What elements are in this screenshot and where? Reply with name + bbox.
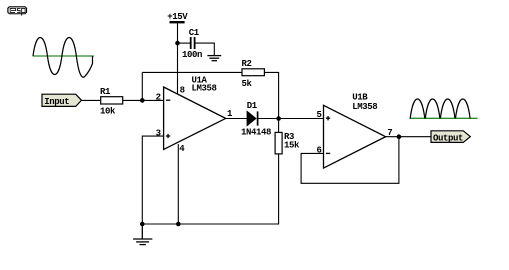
svg-text:1N4148: 1N4148 [241,128,271,138]
wire feedback vertical (pin2 node up) [141,72,143,100]
svg-text:R2: R2 [242,59,252,69]
wire R1 to op-amp pin 2 [123,99,164,101]
input port tag [42,94,82,107]
wire U1A output to D1 [226,118,247,120]
wire feedback top rail to R2 [142,71,242,73]
svg-text:D1: D1 [247,101,258,111]
svg-text:15k: 15k [284,141,300,151]
wire pin 6 feedback loop [301,137,399,184]
junction node pin2 [140,98,145,103]
svg-text:+15V: +15V [167,12,188,22]
svg-text:R1: R1 [100,87,111,97]
output waveform humps [410,99,470,118]
svg-text:Output: Output [433,133,463,143]
wire D1 to node [258,118,278,120]
diode D1 [247,111,258,125]
wire pin 4 down [177,144,179,224]
junction node ground rail left [140,222,145,227]
wire input tag to R1 [82,99,101,101]
+15V supply bar [170,21,185,23]
op-amp U1A [164,87,226,150]
junction node C1 [175,41,180,46]
op-amp U1B [324,105,386,168]
junction node D1/R2/R3/pin5 [276,116,281,121]
junction node pin4/rail [176,222,181,227]
svg-text:4: 4 [179,144,185,154]
wire U1B output [386,136,431,138]
junction node output [397,134,402,139]
svg-text:Input: Input [44,97,69,107]
svg-text:5k: 5k [242,79,253,89]
wire pin 3 to ground net [142,136,163,224]
wire node to C1 [178,42,191,44]
output port tag [431,131,470,144]
esp logo [7,6,27,16]
svg-text:10k: 10k [100,107,116,117]
wire R2 to node [264,72,278,118]
wire node down to R3 [278,119,280,133]
svg-text:1: 1 [227,109,233,119]
svg-text:5: 5 [317,110,322,120]
ground (C1) [207,56,221,61]
svg-text:LM358: LM358 [192,84,217,94]
input waveform sine [33,37,93,77]
svg-text:6: 6 [317,146,322,156]
svg-text:3: 3 [156,128,161,138]
output waveform baseline [409,117,477,119]
input waveform baseline [33,55,94,57]
capacitor C1 [191,37,195,49]
resistor R1 [101,97,123,104]
wire C1 to ground [195,43,214,55]
resistor R2 [242,69,264,76]
svg-text:LM358: LM358 [352,102,377,112]
wire node to pin 5 [279,118,324,120]
svg-text:100n: 100n [182,50,202,60]
svg-text:C1: C1 [189,28,200,38]
ground (main) [133,224,152,245]
wire +15V down to pin 8 [177,23,179,94]
ground rail bottom [142,154,278,224]
svg-text:2: 2 [156,93,161,103]
resistor R3 [275,132,282,154]
svg-text:8: 8 [180,86,185,96]
